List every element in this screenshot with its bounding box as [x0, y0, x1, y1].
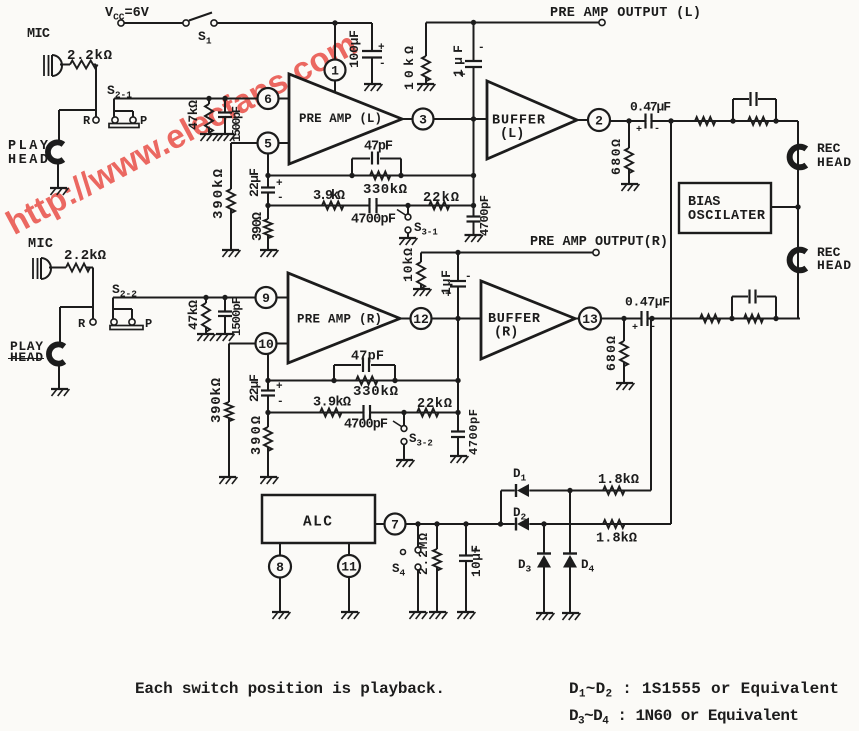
svg-text:7: 7	[391, 518, 399, 533]
svg-text:3.9kΩ: 3.9kΩ	[313, 189, 345, 204]
svg-text:47pF: 47pF	[351, 350, 384, 365]
svg-text:0.47μF: 0.47μF	[625, 295, 670, 310]
svg-text:1: 1	[331, 64, 339, 79]
svg-text:VCC=6V: VCC=6V	[105, 6, 150, 23]
svg-text:PRE AMP OUTPUT (L): PRE AMP OUTPUT (L)	[550, 6, 701, 21]
svg-text:47pF: 47pF	[364, 140, 393, 155]
svg-text:MIC: MIC	[27, 27, 50, 42]
svg-text:+: +	[276, 178, 283, 190]
svg-text:12: 12	[413, 312, 429, 327]
svg-text:390kΩ: 390kΩ	[211, 168, 227, 219]
svg-text:(L): (L)	[500, 127, 524, 142]
svg-text:100μF: 100μF	[347, 30, 362, 68]
svg-text:47kΩ: 47kΩ	[186, 300, 201, 330]
svg-text:8: 8	[276, 560, 284, 575]
svg-text:P: P	[145, 317, 152, 331]
svg-text:-: -	[654, 124, 660, 135]
svg-text:4700pF: 4700pF	[351, 213, 396, 228]
svg-text:22kΩ: 22kΩ	[417, 397, 452, 412]
svg-text:Each switch position is playba: Each switch position is playback.	[135, 680, 445, 698]
svg-text:1.8kΩ: 1.8kΩ	[598, 473, 639, 488]
svg-text:2.2kΩ: 2.2kΩ	[64, 248, 107, 264]
svg-text:HEAD: HEAD	[10, 350, 43, 365]
svg-text:2.2MΩ: 2.2MΩ	[417, 533, 431, 575]
svg-text:MIC: MIC	[28, 237, 53, 252]
svg-text:+: +	[632, 323, 638, 334]
svg-text:+: +	[636, 125, 642, 136]
svg-text:R: R	[78, 317, 86, 331]
svg-text:-: -	[465, 271, 472, 283]
svg-text:P: P	[140, 114, 147, 128]
svg-text:390Ω: 390Ω	[251, 212, 266, 241]
svg-text:3: 3	[419, 113, 427, 128]
svg-text:OSCILATER: OSCILATER	[688, 209, 766, 224]
svg-text:6: 6	[264, 92, 272, 107]
svg-text:-: -	[277, 396, 284, 408]
svg-text:-: -	[277, 192, 284, 204]
svg-text:ALC: ALC	[303, 515, 332, 531]
svg-text:47kΩ: 47kΩ	[186, 100, 201, 130]
svg-text:680Ω: 680Ω	[609, 139, 624, 175]
svg-text:PLAY: PLAY	[8, 139, 49, 154]
svg-text:(R): (R)	[494, 326, 518, 341]
svg-text:PRE AMP (R): PRE AMP (R)	[297, 313, 382, 327]
svg-text:BIAS: BIAS	[688, 195, 720, 210]
svg-text:1μF: 1μF	[439, 270, 454, 295]
svg-text:22μF: 22μF	[247, 374, 262, 402]
svg-text:HEAD: HEAD	[817, 258, 851, 273]
svg-text:4700pF: 4700pF	[478, 195, 492, 236]
svg-text:-: -	[478, 42, 485, 54]
svg-text:3.9kΩ: 3.9kΩ	[313, 396, 351, 411]
svg-text:5: 5	[264, 137, 272, 152]
svg-text:330kΩ: 330kΩ	[353, 384, 399, 400]
svg-text:1μF: 1μF	[451, 45, 466, 77]
svg-text:1500pF: 1500pF	[230, 297, 244, 336]
svg-text:10: 10	[258, 337, 274, 352]
svg-text:13: 13	[582, 312, 598, 327]
svg-text:0.47μF: 0.47μF	[630, 100, 671, 115]
svg-text:390kΩ: 390kΩ	[209, 377, 225, 423]
svg-text:680Ω: 680Ω	[604, 336, 619, 371]
svg-text:1500pF: 1500pF	[230, 106, 244, 142]
svg-text:PRE AMP OUTPUT(R): PRE AMP OUTPUT(R)	[530, 235, 668, 250]
svg-text:9: 9	[262, 291, 270, 306]
svg-text:R: R	[83, 114, 91, 128]
svg-text:22μF: 22μF	[247, 168, 262, 197]
svg-text:10μF: 10μF	[470, 545, 484, 577]
svg-text:2.2kΩ: 2.2kΩ	[67, 48, 113, 64]
svg-text:4700pF: 4700pF	[344, 418, 388, 433]
svg-text:-: -	[379, 58, 386, 70]
svg-text:1.8kΩ: 1.8kΩ	[596, 532, 637, 547]
svg-text:HEAD: HEAD	[817, 155, 851, 170]
svg-text:PRE AMP (L): PRE AMP (L)	[299, 112, 382, 126]
svg-text:REC: REC	[817, 141, 841, 156]
svg-text:+: +	[276, 381, 283, 393]
svg-text:22kΩ: 22kΩ	[423, 191, 459, 206]
svg-text:+: +	[378, 42, 385, 54]
svg-text:11: 11	[341, 560, 357, 575]
svg-text:330kΩ: 330kΩ	[363, 182, 408, 198]
svg-text:2: 2	[595, 114, 603, 129]
svg-text:10kΩ: 10kΩ	[401, 248, 416, 282]
svg-text:4700pF: 4700pF	[467, 409, 481, 455]
